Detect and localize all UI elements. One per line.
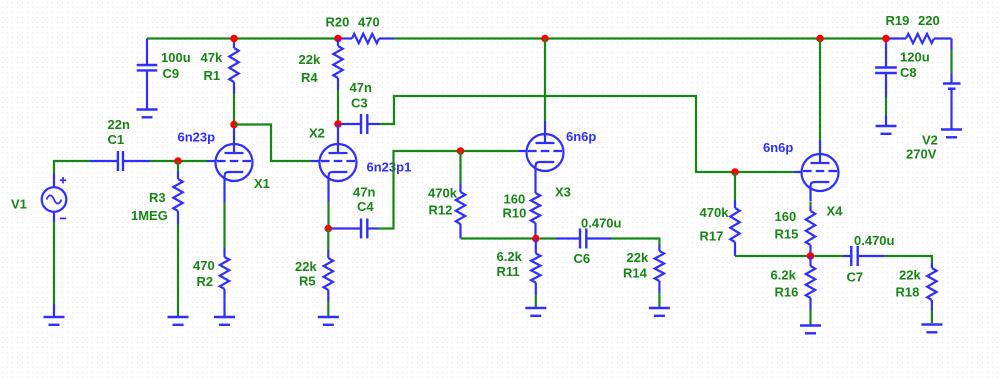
svg-text:22k: 22k bbox=[295, 259, 317, 274]
node rail-X3 bbox=[541, 35, 549, 43]
ground V1 bbox=[44, 316, 65, 318]
svg-text:22k: 22k bbox=[899, 268, 921, 283]
wire C1 to X1 grid bbox=[150, 160, 207, 162]
capacitor C1 bbox=[90, 160, 118, 162]
svg-text:R16: R16 bbox=[775, 285, 799, 300]
source V1 bbox=[42, 187, 67, 212]
svg-text:X1: X1 bbox=[254, 176, 270, 191]
node X1 plate bbox=[230, 121, 238, 129]
svg-text:160: 160 bbox=[504, 192, 526, 207]
svg-text:C6: C6 bbox=[574, 251, 591, 266]
wire R1 to X1 plate bbox=[233, 94, 235, 125]
wire rail to X3 plate bbox=[544, 39, 546, 122]
op-amp X2 triode bbox=[320, 144, 357, 181]
svg-text:6.2k: 6.2k bbox=[497, 249, 523, 264]
svg-text:V2: V2 bbox=[922, 133, 938, 148]
svg-text:X4: X4 bbox=[827, 204, 844, 219]
resistor R15 bbox=[809, 206, 811, 211]
svg-text:120u: 120u bbox=[900, 50, 930, 65]
svg-text:R12: R12 bbox=[429, 203, 453, 218]
resistor R14 bbox=[658, 245, 660, 251]
svg-text:R10: R10 bbox=[503, 206, 527, 221]
svg-text:0.470u: 0.470u bbox=[581, 215, 622, 230]
svg-text:C9: C9 bbox=[163, 66, 180, 81]
resistor R5 bbox=[327, 229, 329, 251]
svg-text:C8: C8 bbox=[900, 65, 917, 80]
svg-text:220: 220 bbox=[918, 13, 940, 28]
node X3 cathode bbox=[532, 235, 540, 243]
wire X1 plate to X2 grid bbox=[234, 125, 311, 162]
svg-text:R2: R2 bbox=[197, 274, 214, 289]
ground R14 bbox=[649, 307, 670, 309]
svg-text:C7: C7 bbox=[847, 270, 864, 285]
svg-text:100u: 100u bbox=[161, 50, 191, 65]
resistor R3 bbox=[177, 161, 179, 171]
resistor R16 bbox=[809, 256, 811, 266]
svg-text:C4: C4 bbox=[357, 199, 374, 214]
svg-text:22k: 22k bbox=[299, 52, 321, 67]
node X2 plate bbox=[334, 120, 342, 128]
wire C4 to X3 grid bbox=[378, 151, 518, 229]
svg-text:R1: R1 bbox=[204, 68, 221, 83]
op-amp X4 triode bbox=[802, 154, 839, 191]
node X3 grid bbox=[457, 147, 465, 155]
wire X4 cathode bbox=[809, 202, 811, 206]
node X4 grid bbox=[731, 168, 739, 176]
svg-text:R5: R5 bbox=[299, 274, 316, 289]
resistor R19 bbox=[887, 37, 906, 39]
wire R12 to X3 cathode node bbox=[461, 237, 536, 239]
ground C9 bbox=[137, 108, 158, 110]
ground R2 bbox=[214, 316, 235, 318]
resistor R1 bbox=[233, 39, 235, 49]
node rail-R1 bbox=[230, 35, 238, 43]
svg-text:470: 470 bbox=[358, 15, 380, 30]
svg-text:6n6p: 6n6p bbox=[566, 129, 596, 144]
svg-text:R11: R11 bbox=[497, 264, 520, 279]
wire V1 to ground bbox=[53, 222, 55, 304]
wire C6 to R14 bbox=[611, 239, 659, 246]
svg-text:0.470u: 0.470u bbox=[854, 233, 895, 248]
wire C7 to R18 bbox=[884, 256, 932, 262]
svg-text:6n6p: 6n6p bbox=[763, 140, 793, 155]
svg-text:160: 160 bbox=[775, 209, 797, 224]
svg-text:22k: 22k bbox=[627, 250, 649, 265]
ground R3 bbox=[168, 316, 189, 318]
wire top supply rail bbox=[147, 37, 340, 39]
svg-text:22n: 22n bbox=[108, 117, 130, 132]
svg-text:470k: 470k bbox=[428, 186, 458, 201]
capacitor C6 bbox=[540, 237, 556, 239]
svg-text:6n23p1: 6n23p1 bbox=[367, 160, 412, 175]
node rail-R4 bbox=[334, 35, 342, 43]
ground R5 bbox=[318, 316, 339, 318]
resistor R10 bbox=[534, 186, 536, 193]
svg-text:6n23p: 6n23p bbox=[178, 130, 216, 145]
ground R11 bbox=[525, 307, 546, 309]
svg-text:6.2k: 6.2k bbox=[771, 268, 797, 283]
svg-text:1MEG: 1MEG bbox=[131, 208, 168, 223]
wire rail to V2 bbox=[950, 39, 952, 51]
svg-text:C3: C3 bbox=[351, 96, 368, 111]
svg-text:V1: V1 bbox=[11, 197, 27, 212]
svg-text:C1: C1 bbox=[108, 132, 125, 147]
resistor R11 bbox=[535, 239, 537, 254]
svg-text:R18: R18 bbox=[896, 285, 920, 300]
ground C8 bbox=[876, 125, 897, 127]
ground V2 bbox=[941, 128, 962, 130]
ground R16 bbox=[800, 324, 821, 326]
svg-text:R19: R19 bbox=[886, 13, 910, 28]
battery V2 bbox=[943, 82, 961, 85]
svg-text:X3: X3 bbox=[555, 184, 571, 199]
resistor R12 bbox=[459, 151, 461, 184]
node X4 cathode bbox=[807, 252, 815, 260]
resistor R20 bbox=[340, 37, 352, 39]
op-amp X3 triode bbox=[527, 134, 564, 171]
wire C3 to X4 grid bbox=[380, 96, 794, 172]
capacitor C7 bbox=[814, 255, 843, 257]
wire V1 to C1 bbox=[54, 161, 90, 174]
node rail-X4 bbox=[816, 35, 824, 43]
resistor R2 bbox=[223, 248, 225, 257]
svg-text:R20: R20 bbox=[326, 15, 350, 30]
capacitor C9 bbox=[146, 39, 148, 66]
ground R18 bbox=[921, 323, 942, 325]
svg-text:R3: R3 bbox=[149, 190, 166, 205]
svg-text:R4: R4 bbox=[301, 70, 318, 85]
node C1-R3-grid bbox=[174, 157, 182, 165]
wire R4 to X2 plate bbox=[337, 90, 339, 124]
wire R17 to X4 cathode node bbox=[735, 255, 811, 257]
resistor R4 bbox=[337, 39, 339, 47]
node rail-C8 bbox=[882, 35, 890, 43]
wire X1 cathode bbox=[223, 192, 225, 203]
svg-text:270V: 270V bbox=[906, 147, 937, 162]
wire X2 cathode bbox=[327, 192, 329, 203]
resistor R18 bbox=[931, 262, 933, 268]
svg-text:470k: 470k bbox=[700, 205, 730, 220]
wire R3 to ground bbox=[177, 224, 179, 316]
svg-text:R17: R17 bbox=[700, 229, 724, 244]
svg-text:R14: R14 bbox=[623, 266, 648, 281]
capacitor C8 bbox=[885, 39, 887, 68]
capacitor C3 bbox=[342, 123, 362, 125]
svg-text:47n: 47n bbox=[350, 80, 372, 95]
svg-text:R15: R15 bbox=[775, 227, 799, 242]
resistor R17 bbox=[734, 172, 736, 200]
svg-text:X2: X2 bbox=[309, 126, 325, 141]
svg-text:47n: 47n bbox=[353, 185, 375, 200]
svg-text:470: 470 bbox=[193, 258, 215, 273]
wire X3 cathode bbox=[534, 182, 536, 187]
capacitor C4 bbox=[332, 227, 362, 229]
wire rail to X4 plate bbox=[819, 39, 821, 141]
svg-text:47k: 47k bbox=[201, 50, 223, 65]
op-amp X1 triode bbox=[216, 144, 253, 181]
node X2 cathode bbox=[325, 225, 333, 233]
